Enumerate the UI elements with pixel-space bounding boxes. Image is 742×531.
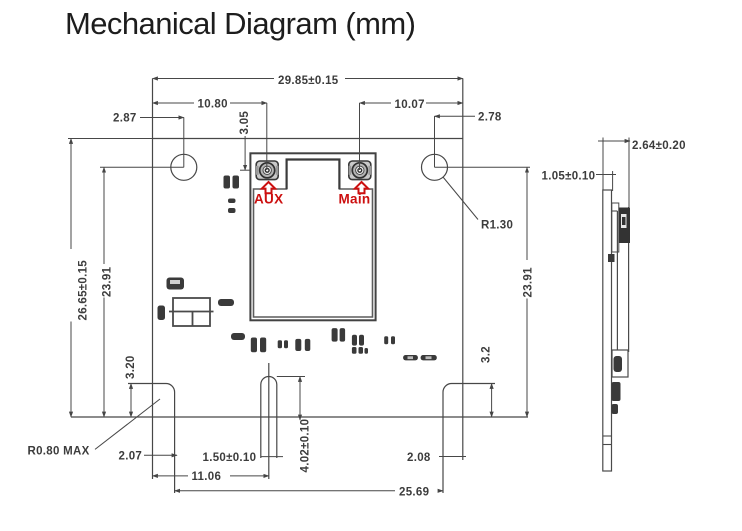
ext line to Main connector <box>359 103 361 170</box>
component inductor left <box>167 278 185 290</box>
shield can lid inner outline <box>254 160 373 318</box>
svg-text:26.65±0.15: 26.65±0.15 <box>78 260 90 321</box>
RF connector Main <box>349 161 371 180</box>
dim 1.50 line <box>261 456 283 458</box>
svg-text:Main: Main <box>339 192 371 207</box>
svg-text:10.80: 10.80 <box>198 99 228 111</box>
dim 2.78 line <box>435 115 476 117</box>
ext 2.64 left <box>602 141 604 190</box>
svg-text:2.08: 2.08 <box>407 452 431 464</box>
ext line to left hole center <box>183 118 185 168</box>
dim 2.07 line <box>144 454 177 456</box>
dim 23.91 left line <box>103 167 105 264</box>
dim 3.2 right line <box>491 384 493 418</box>
svg-text:3.20: 3.20 <box>125 355 137 379</box>
mounting hole right <box>422 154 448 180</box>
mounting hole left <box>171 154 197 180</box>
right bottom notch <box>443 384 495 494</box>
shield can outer outline <box>250 153 375 320</box>
bottom middle slot <box>261 377 277 459</box>
svg-text:2.78: 2.78 <box>478 112 502 124</box>
svg-text:23.91: 23.91 <box>102 266 114 297</box>
component row below shield <box>251 328 395 354</box>
svg-text:10.07: 10.07 <box>395 99 425 111</box>
shield antenna notch <box>287 160 340 190</box>
side pcb body <box>603 190 612 471</box>
slot center line <box>268 363 270 479</box>
side lower components <box>612 382 621 401</box>
dim 2.64 line <box>598 140 630 142</box>
ext line to AUX connector <box>266 103 268 170</box>
red arrow Main <box>355 182 368 193</box>
dim 3.05 line <box>244 136 246 170</box>
dim 10.07 line <box>360 102 392 104</box>
dim 1.05 line <box>596 174 616 176</box>
ext line to right hole center <box>434 116 436 167</box>
side shield top edge <box>612 210 618 212</box>
svg-text:2.87: 2.87 <box>113 113 137 125</box>
leader R0.80 MAX <box>95 399 160 449</box>
component right of crystal <box>218 299 234 306</box>
svg-text:R1.30: R1.30 <box>481 220 513 232</box>
svg-text:29.85±0.15: 29.85±0.15 <box>278 75 339 87</box>
side pcb bottom break lines <box>603 436 612 445</box>
board outline top edge <box>153 138 464 140</box>
svg-text:AUX: AUX <box>254 192 283 207</box>
svg-text:Mechanical Diagram (mm): Mechanical Diagram (mm) <box>65 6 416 41</box>
ext line 26.65 top <box>68 138 153 140</box>
dim 2.08 line <box>439 456 466 458</box>
left bottom notch <box>128 384 175 494</box>
ext line 23.91 right from hole center <box>435 166 531 168</box>
svg-text:3.2: 3.2 <box>481 346 493 363</box>
svg-text:R0.80 MAX: R0.80 MAX <box>28 446 90 458</box>
dim 26.65 line <box>70 139 72 250</box>
board outline bottom edge (continuous with dim extension lines) <box>71 416 528 418</box>
dim 2.87 line <box>140 117 184 119</box>
leader R1.30 <box>443 177 478 220</box>
svg-text:3.05: 3.05 <box>239 111 251 135</box>
svg-text:1.50±0.10: 1.50±0.10 <box>203 452 257 464</box>
svg-text:25.69: 25.69 <box>399 487 429 499</box>
side mid component box <box>612 350 628 377</box>
board outline left edge (with extensions above and below) <box>152 79 154 480</box>
dim 25.69 line <box>175 490 395 492</box>
dim 4.02 line <box>299 377 301 421</box>
dim 10.80 line <box>153 102 195 104</box>
side small tick component <box>608 254 615 262</box>
component pair caps upper-left <box>224 176 240 214</box>
ext 2.64 right <box>628 141 630 207</box>
dim 29.85 line <box>153 78 275 80</box>
ext line 23.91 left from hole center <box>100 166 184 168</box>
dim 11.06 line <box>153 475 189 477</box>
svg-text:23.91: 23.91 <box>523 267 535 298</box>
resistor pair right <box>403 355 437 360</box>
red arrow AUX <box>262 182 275 193</box>
component small vertical left edge <box>158 306 166 321</box>
RF connector AUX <box>256 161 278 180</box>
svg-text:11.06: 11.06 <box>192 471 222 483</box>
crystal rectangle <box>169 298 214 326</box>
svg-text:2.07: 2.07 <box>119 451 143 463</box>
board outline right edge (with extension above and below) <box>462 79 464 418</box>
dim 3.20 left line <box>130 384 132 418</box>
side shield inner face <box>616 211 618 350</box>
side connector block <box>612 203 630 252</box>
svg-text:4.02±0.10: 4.02±0.10 <box>300 419 312 473</box>
svg-text:2.64±0.20: 2.64±0.20 <box>632 140 686 152</box>
component below crystal <box>231 333 245 340</box>
dim 23.91 right line <box>526 167 528 260</box>
svg-text:1.05±0.10: 1.05±0.10 <box>542 171 596 183</box>
side shield outer face <box>628 207 630 352</box>
